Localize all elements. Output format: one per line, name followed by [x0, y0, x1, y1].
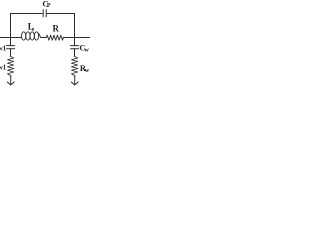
svg-text:w1: w1	[0, 45, 7, 52]
wire main left segment	[0, 37, 22, 39]
wire right segment	[63, 37, 90, 39]
right branch wire to cap	[74, 38, 76, 46]
capacitor CP plates	[43, 10, 46, 17]
wire between inductor and resistor	[41, 37, 47, 39]
svg-text:w: w	[85, 67, 90, 74]
node A left junction vertical to top loop	[10, 14, 12, 38]
wire top right horizontal	[47, 13, 74, 15]
wire cap to resistor right	[74, 49, 76, 57]
resistor RW1 zigzag	[8, 56, 14, 75]
ground arrow left	[7, 82, 14, 85]
svg-text:w1: w1	[0, 64, 7, 71]
inductor Ls exit tail	[39, 33, 41, 37]
inductor Ls loop 3	[30, 32, 34, 40]
inductor Ls loop 1	[21, 32, 25, 40]
ground arrow right	[71, 82, 78, 85]
svg-text:P: P	[47, 3, 51, 9]
capacitor CW plates	[71, 46, 79, 49]
resistor RW zigzag	[72, 56, 78, 75]
node B right junction vertical	[74, 14, 76, 38]
capacitor CW1 plates	[7, 46, 15, 49]
resistor R zigzag	[46, 35, 63, 40]
wire to ground arrow right	[74, 76, 76, 85]
wire top left horizontal	[11, 13, 43, 15]
wire to ground arrow left	[10, 76, 12, 85]
svg-text:w: w	[84, 47, 89, 54]
inductor Ls loop 4	[34, 32, 38, 40]
svg-text:R: R	[53, 23, 60, 33]
left branch wire to cap	[10, 38, 12, 46]
inductor Ls loop 2	[26, 32, 30, 40]
wire cap to resistor left	[10, 49, 12, 57]
